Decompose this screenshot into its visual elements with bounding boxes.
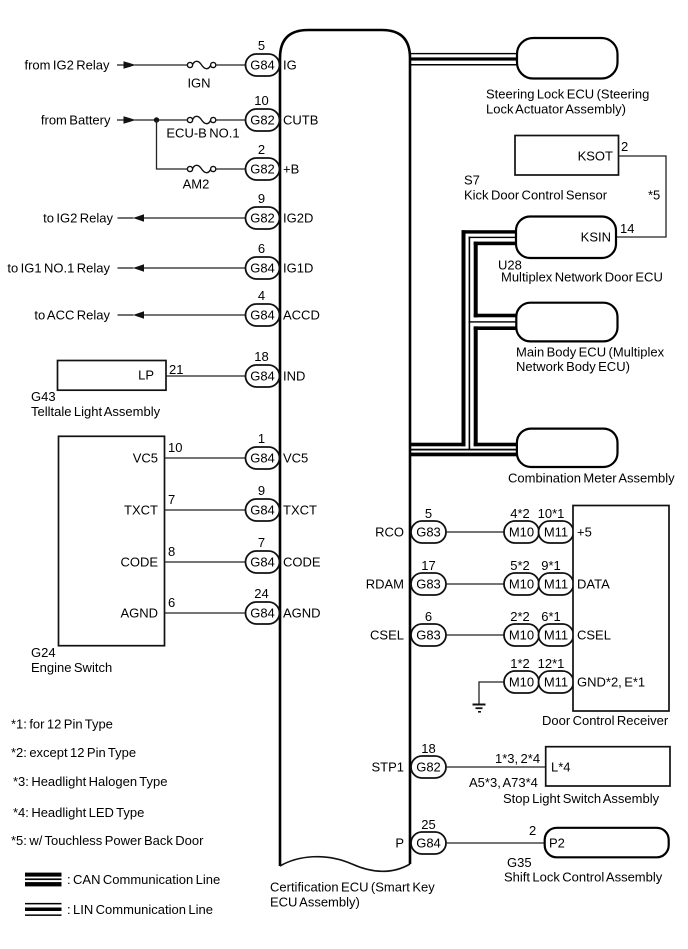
svg-text:*1: for 12 Pin Type: *1: for 12 Pin Type [11, 717, 113, 732]
wire IG1D [144, 267, 246, 269]
CAN horizontal thin ECU to meter [410, 449, 517, 451]
svg-text:4: 4 [258, 288, 265, 303]
svg-text:KSIN: KSIN [581, 230, 611, 245]
connector G82 pin 18 (STP1) [411, 756, 446, 778]
svg-text:1: 1 [258, 431, 265, 446]
svg-text:6: 6 [258, 241, 265, 256]
fuse IGN [187, 61, 215, 68]
svg-text:M11: M11 [544, 675, 568, 690]
svg-text:VC5: VC5 [133, 451, 158, 466]
svg-text:Lock Actuator Assembly): Lock Actuator Assembly) [486, 102, 626, 117]
svg-text:M10: M10 [509, 628, 534, 643]
Door Control Receiver box [573, 506, 669, 712]
svg-text:Stop Light Switch Assembly: Stop Light Switch Assembly [503, 791, 660, 806]
svg-text:VC5: VC5 [283, 451, 308, 466]
svg-text:7: 7 [168, 492, 175, 507]
wire fuse ECU-B to connector G82 [216, 119, 246, 121]
svg-text:9: 9 [258, 483, 265, 498]
svg-text:G82: G82 [250, 211, 275, 226]
svg-text:Steering Lock ECU (Steering: Steering Lock ECU (Steering [486, 87, 649, 102]
svg-text:8: 8 [168, 544, 175, 559]
svg-text:DATA: DATA [577, 577, 610, 592]
svg-text:9: 9 [258, 191, 265, 206]
wire STP1 to stop light switch [446, 766, 546, 768]
wire fuse IGN to connector G84 [216, 64, 246, 66]
Shift Lock Control Assembly box G35 [545, 828, 669, 858]
svg-text:*5: *5 [648, 188, 660, 203]
svg-text:CSEL: CSEL [577, 628, 611, 643]
svg-text:+B: +B [283, 162, 299, 177]
svg-text:G84: G84 [416, 836, 441, 851]
svg-text:25: 25 [421, 817, 435, 832]
svg-text:Network Body ECU): Network Body ECU) [516, 359, 630, 374]
svg-text:P2: P2 [549, 836, 565, 851]
wire CSEL to M10 [446, 634, 504, 636]
fuse AM2 [187, 165, 215, 172]
svg-text:G24: G24 [31, 645, 56, 660]
Steering Lock ECU box [517, 38, 618, 79]
svg-text:G84: G84 [250, 503, 275, 518]
CAN branch to Main Body thick bottom [474, 326, 517, 330]
connector G84 pin 4 (ACCD) [246, 304, 280, 326]
svg-text:+5: +5 [577, 525, 592, 540]
svg-text:18: 18 [254, 349, 268, 364]
svg-text:10: 10 [168, 440, 182, 455]
svg-text:14: 14 [620, 221, 634, 236]
wire fuse AM2 to connector G82 [216, 168, 246, 170]
wire TXCT [165, 509, 246, 511]
svg-text:1*2: 1*2 [510, 656, 530, 671]
junction dot battery branch [154, 117, 159, 122]
connector M11 row4 [539, 671, 574, 693]
svg-text:4*2: 4*2 [510, 506, 530, 521]
svg-text:ECU Assembly): ECU Assembly) [270, 895, 360, 910]
svg-text:from Battery: from Battery [41, 113, 111, 128]
svg-text:M11: M11 [544, 628, 568, 643]
wire VC5 [165, 457, 246, 459]
svg-text:IND: IND [283, 369, 305, 384]
svg-text:ECU-B NO.1: ECU-B NO.1 [166, 126, 239, 141]
connector G84 pin 1 (VC5) [246, 447, 280, 469]
legend CAN symbol [25, 873, 62, 887]
svg-text:G83: G83 [416, 577, 441, 592]
CAN trunk outer thick vertical [462, 230, 466, 446]
connector M11 row2 [539, 573, 574, 595]
svg-text:*3: Headlight Halogen Type: *3: Headlight Halogen Type [13, 774, 167, 789]
svg-text:G82: G82 [416, 760, 441, 775]
svg-text:Telltale Light Assembly: Telltale Light Assembly [31, 404, 161, 419]
wire arrow to fuse IGN [135, 64, 188, 66]
connector G84 pin 25 (P) [411, 832, 446, 854]
arrow right Battery row [124, 116, 136, 124]
svg-text:CODE: CODE [283, 555, 321, 570]
connector G83 pin 17 (RDAM) [411, 573, 446, 595]
fuse ECU-B NO.1 [187, 116, 215, 123]
svg-text:5: 5 [425, 506, 432, 521]
CAN branch to KSIN thick bottom [474, 242, 517, 246]
connector G83 pin 5 (RCO) [411, 521, 446, 543]
connector G84 pin 18 (IND) [246, 365, 280, 387]
engine switch box G24 [59, 436, 165, 645]
wire CODE [165, 561, 246, 563]
Kick Door Control Sensor box S7 [515, 136, 619, 176]
connector G83 pin 6 (CSEL) [411, 624, 446, 646]
svg-text:G82: G82 [250, 162, 275, 177]
svg-text:KSOT: KSOT [578, 149, 613, 164]
svg-text:12*1: 12*1 [538, 656, 565, 671]
wire battery branch down to AM2 [157, 120, 188, 169]
svg-text:G83: G83 [416, 628, 441, 643]
svg-text:: LIN Communication Line: : LIN Communication Line [67, 902, 213, 917]
svg-text:IG: IG [283, 58, 297, 73]
svg-text:18: 18 [421, 741, 435, 756]
svg-text:21: 21 [169, 362, 183, 377]
svg-text:to IG2 Relay: to IG2 Relay [43, 211, 113, 226]
CAN trunk thin vertical [469, 237, 471, 451]
connector M10 row1 [504, 521, 539, 543]
wire ACCD [144, 314, 246, 316]
Main Body ECU box [516, 303, 617, 342]
svg-text:5*2: 5*2 [510, 558, 530, 573]
connector G84 pin 9 (TXCT) [246, 499, 280, 521]
svg-text:RCO: RCO [375, 525, 404, 540]
svg-text:ACCD: ACCD [283, 308, 320, 323]
connector M10 row4 [504, 671, 539, 693]
wire LP to IND [166, 375, 246, 377]
connector M10 row2 [504, 573, 539, 595]
svg-text:M11: M11 [544, 525, 568, 540]
svg-text:6*1: 6*1 [541, 609, 561, 624]
Stop Light Switch Assembly box [546, 747, 670, 786]
svg-text:to IG1 NO.1 Relay: to IG1 NO.1 Relay [7, 261, 110, 276]
svg-text:*5: w/ Touchless Power Back Do: *5: w/ Touchless Power Back Door [11, 833, 204, 848]
svg-text:2*2: 2*2 [510, 609, 530, 624]
svg-text:LP: LP [138, 368, 154, 383]
CAN trunk inner thick vertical lower [474, 326, 478, 446]
svg-text:G43: G43 [31, 389, 56, 404]
svg-text:1*3, 2*4: 1*3, 2*4 [495, 751, 540, 766]
connector G84 pin 6 (IG1D) [246, 257, 280, 279]
svg-text:M10: M10 [509, 675, 534, 690]
arrow right IG row [124, 61, 136, 69]
wire ground to M10 row4 [479, 682, 504, 704]
wire AGND [165, 612, 246, 614]
connector M10 row3 [504, 624, 539, 646]
CAN branch to KSIN thin [469, 237, 517, 238]
svg-text:RDAM: RDAM [366, 577, 404, 592]
wire RCO to M10 [446, 531, 504, 533]
wire arrow to fuse ECU-B NO.1 [135, 119, 188, 121]
arrow left IG2D row [133, 214, 144, 222]
connector G84 pin 7 (CODE) [246, 551, 280, 573]
svg-text:Engine Switch: Engine Switch [31, 660, 112, 675]
svg-text:6: 6 [168, 595, 175, 610]
svg-text:2: 2 [621, 139, 628, 154]
ground symbol [473, 704, 486, 713]
arrow left ACCD row [133, 311, 144, 319]
svg-text:G84: G84 [250, 261, 275, 276]
svg-text:L*4: L*4 [551, 760, 571, 775]
svg-text:CUTB: CUTB [283, 113, 318, 128]
wire to ACC Relay lead [118, 314, 134, 316]
wire from Battery lead [117, 119, 125, 121]
connector M11 row1 [539, 521, 574, 543]
svg-text:TXCT: TXCT [283, 503, 317, 518]
svg-text:G84: G84 [250, 451, 275, 466]
svg-text:AGND: AGND [283, 606, 321, 621]
svg-text:P: P [395, 836, 404, 851]
svg-text:6: 6 [425, 609, 432, 624]
svg-text:CODE: CODE [120, 555, 158, 570]
svg-text:M10: M10 [509, 577, 534, 592]
LIN line ECU to Steering Lock ECU [410, 53, 517, 66]
svg-text:G82: G82 [250, 113, 275, 128]
svg-text:Door Control Receiver: Door Control Receiver [542, 713, 669, 728]
svg-text:IG2D: IG2D [283, 211, 313, 226]
CAN branch to Main Body thin [469, 321, 517, 322]
svg-text:AM2: AM2 [183, 177, 210, 192]
arrow left IG1D row [133, 264, 144, 272]
svg-text:G84: G84 [250, 308, 275, 323]
connector G84 pin 5 (IG) [246, 54, 280, 76]
svg-text:10: 10 [254, 93, 268, 108]
connector G82 pin 2 (+B) [246, 158, 280, 180]
connector G84 pin 24 (AGND) [246, 602, 280, 624]
svg-text:10*1: 10*1 [538, 506, 565, 521]
wire to IG2 Relay lead [118, 217, 134, 219]
connector M11 row3 [539, 624, 574, 646]
svg-text:G84: G84 [250, 606, 275, 621]
telltale light assembly box G43 [58, 361, 167, 391]
svg-text:AGND: AGND [120, 606, 158, 621]
svg-text:M10: M10 [509, 525, 534, 540]
wire IG2D [144, 217, 246, 219]
svg-text:G84: G84 [250, 555, 275, 570]
svg-text:Multiplex Network Door ECU: Multiplex Network Door ECU [501, 270, 663, 285]
svg-text:24: 24 [254, 586, 268, 601]
svg-text:7: 7 [258, 535, 265, 550]
svg-text:M11: M11 [544, 577, 568, 592]
svg-text:G84: G84 [250, 369, 275, 384]
svg-text:5: 5 [258, 38, 265, 53]
svg-text:9*1: 9*1 [541, 558, 561, 573]
svg-text:G83: G83 [416, 525, 441, 540]
svg-text:TXCT: TXCT [124, 503, 158, 518]
connector G82 pin 9 (IG2D) [246, 207, 280, 229]
svg-text:to ACC Relay: to ACC Relay [34, 308, 110, 323]
svg-text:Kick Door Control Sensor: Kick Door Control Sensor [464, 188, 608, 203]
svg-text:*2: except 12 Pin Type: *2: except 12 Pin Type [11, 745, 136, 760]
CAN ECU horizontal thick top left segment [410, 443, 466, 447]
svg-text:IGN: IGN [187, 76, 210, 91]
wire P to shift lock [446, 842, 545, 844]
svg-text:STP1: STP1 [371, 760, 404, 775]
CAN horizontal thick top right segment to meter [474, 443, 518, 447]
svg-text:17: 17 [421, 558, 435, 573]
CAN horizontal thick bottom ECU to meter [410, 453, 517, 457]
ECU box wavy bottom edge [280, 857, 410, 872]
wire to IG1 NO.1 Relay lead [118, 267, 134, 269]
svg-text:Certification ECU (Smart Key: Certification ECU (Smart Key [270, 880, 435, 895]
CAN branch to KSIN thick top [462, 230, 518, 233]
wire from IG2 Relay lead [117, 64, 125, 66]
svg-text:G84: G84 [250, 58, 275, 73]
legend LIN symbol [25, 903, 62, 916]
CAN trunk inner thick vertical upper [474, 242, 478, 318]
svg-text:: CAN Communication Line: : CAN Communication Line [67, 872, 220, 887]
svg-text:2: 2 [258, 142, 265, 157]
svg-text:CSEL: CSEL [370, 628, 404, 643]
svg-text:GND*2, E*1: GND*2, E*1 [577, 675, 645, 690]
Combination Meter Assembly box [517, 429, 618, 467]
svg-text:G35: G35 [507, 855, 532, 870]
Multiplex Network Door ECU box U28 [516, 217, 616, 259]
svg-text:2: 2 [529, 823, 536, 838]
svg-text:A5*3, A73*4: A5*3, A73*4 [469, 775, 538, 790]
wire KSOT to KSIN [617, 156, 666, 237]
svg-text:Main Body ECU (Multiplex: Main Body ECU (Multiplex [516, 345, 665, 360]
svg-text:IG1D: IG1D [283, 261, 313, 276]
svg-text:Shift Lock Control Assembly: Shift Lock Control Assembly [504, 870, 663, 885]
CAN branch to Main Body thick top [474, 314, 517, 318]
svg-text:Combination Meter Assembly: Combination Meter Assembly [508, 471, 675, 486]
ECU box Certification ECU (Smart Key ECU Assembly) outline [280, 30, 410, 866]
svg-text:from IG2 Relay: from IG2 Relay [24, 58, 110, 73]
connector G82 pin 10 (CUTB) [246, 109, 280, 131]
svg-text:*4: Headlight LED Type: *4: Headlight LED Type [13, 805, 144, 820]
svg-text:S7: S7 [464, 173, 480, 188]
wire RDAM to M10 [446, 583, 504, 585]
